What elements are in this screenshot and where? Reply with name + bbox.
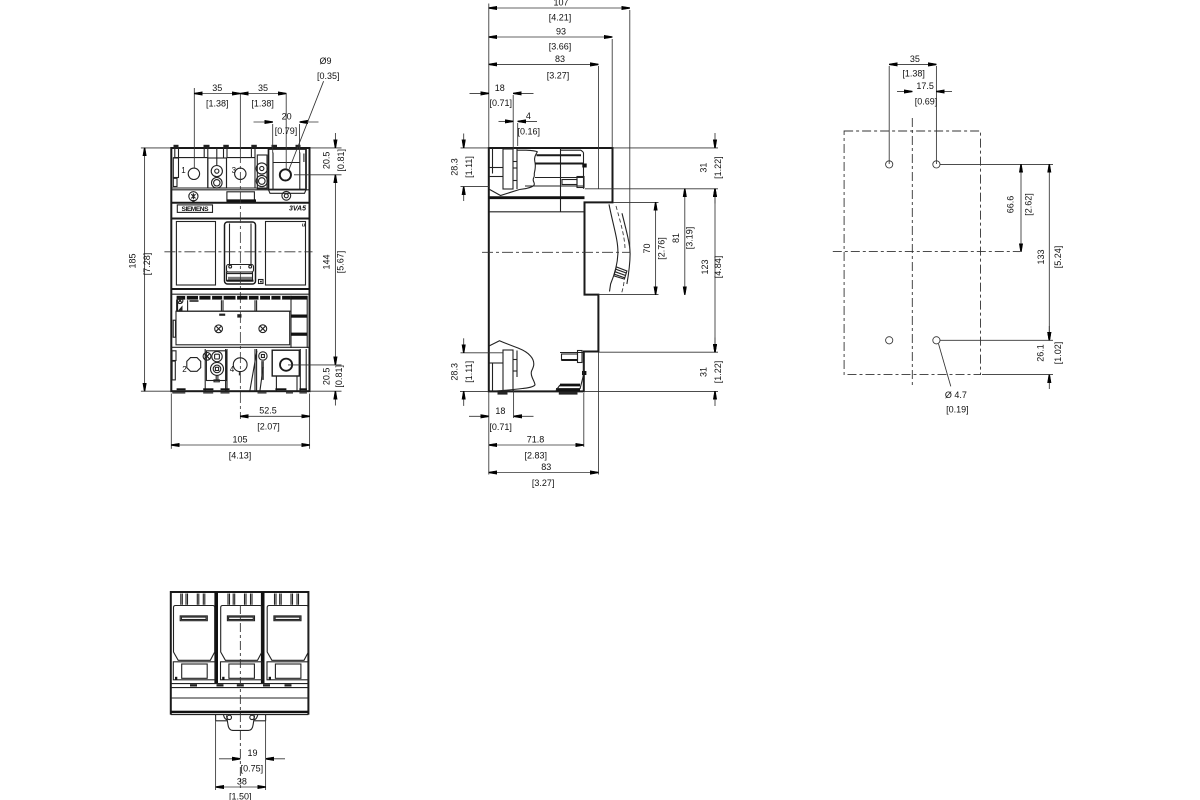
svg-text:18: 18	[495, 83, 505, 93]
svg-text:38: 38	[237, 776, 247, 786]
svg-text:81: 81	[671, 233, 681, 243]
dimension 38	[216, 715, 266, 800]
dimension 18 top	[470, 83, 534, 150]
dimension 35 pole spacing right	[240, 83, 286, 169]
svg-text:28.3: 28.3	[450, 363, 460, 381]
dimension 20.5 top right	[294, 133, 346, 175]
dimension 81	[671, 189, 695, 295]
svg-text:26.1: 26.1	[1036, 344, 1046, 362]
svg-text:[1.38]: [1.38]	[206, 99, 229, 109]
svg-text:[0.75]: [0.75]	[241, 763, 264, 773]
mounting hole bottom right	[933, 337, 940, 344]
dimension 185 left	[128, 148, 171, 391]
dimension 93	[489, 26, 612, 148]
pole 3 housing	[267, 594, 308, 680]
panel outline dash dot	[844, 131, 980, 375]
handle grip cross section	[614, 267, 627, 279]
svg-text:[1.22]: [1.22]	[713, 361, 723, 384]
right side wall lines	[304, 149, 306, 190]
dimension 26.1	[982, 326, 1063, 389]
top terminal clamp bracket	[503, 149, 517, 189]
left clip detail	[177, 298, 183, 311]
terminal circle 4	[230, 358, 247, 376]
DRILL PLAN GROUP	[833, 54, 1063, 414]
svg-text:17.5: 17.5	[916, 81, 934, 91]
svg-text:83: 83	[555, 54, 565, 64]
svg-text:185: 185	[128, 253, 138, 268]
dimension 35 hole spacing	[889, 54, 936, 164]
svg-text:28.3: 28.3	[450, 158, 460, 176]
svg-text:[0.81]: [0.81]	[336, 149, 346, 172]
svg-text:133: 133	[1036, 249, 1046, 264]
diagonal cover edges	[250, 351, 263, 391]
svg-text:[4.21]: [4.21]	[549, 13, 572, 23]
dimension 123	[700, 189, 723, 352]
svg-text:1: 1	[181, 166, 186, 175]
pole divider bars	[214, 592, 264, 684]
screw right under terminals	[282, 191, 291, 200]
svg-text:[0.35]: [0.35]	[317, 71, 340, 81]
base small tabs	[190, 684, 292, 686]
svg-text:20.5: 20.5	[321, 368, 331, 386]
top pocket walls	[208, 158, 255, 188]
dimension 17.5	[897, 81, 952, 106]
svg-text:[0.71]: [0.71]	[490, 98, 513, 108]
svg-text:35: 35	[212, 83, 222, 93]
vertical center line front view	[239, 94, 241, 420]
din rail foot	[216, 715, 266, 721]
svg-text:20: 20	[282, 112, 292, 122]
side view body outline	[489, 148, 613, 391]
svg-text:2: 2	[182, 365, 187, 374]
nameplate window	[227, 192, 256, 202]
svg-text:[2.07]: [2.07]	[257, 422, 280, 432]
dimension 19	[219, 748, 285, 773]
mounting hole top left	[886, 161, 893, 168]
dimension 20.5 bottom right	[288, 365, 344, 406]
toggle handle grip	[227, 265, 254, 281]
base plate lines	[171, 684, 309, 715]
din rail clip cup	[224, 715, 258, 730]
accessory box	[176, 311, 290, 345]
svg-text:[7.28]: [7.28]	[142, 253, 152, 276]
band line	[171, 202, 309, 204]
vent hatch band	[177, 296, 291, 300]
svg-text:66.6: 66.6	[1005, 196, 1015, 214]
bottom terminal left rib	[489, 363, 503, 391]
svg-text:35: 35	[258, 83, 268, 93]
u marking	[302, 223, 306, 229]
svg-text:Ø 4.7: Ø 4.7	[945, 390, 967, 400]
dimension 52.5 bottom	[240, 394, 309, 449]
svg-text:4: 4	[230, 365, 235, 374]
svg-text:70: 70	[642, 243, 652, 253]
bottom pocket walls	[205, 349, 256, 391]
thick band under top terminal	[489, 198, 585, 212]
dimension 70 handle window	[599, 202, 667, 294]
svg-text:123: 123	[700, 259, 710, 274]
bottom view outline	[171, 592, 309, 715]
svg-text:[1.22]: [1.22]	[713, 156, 723, 179]
svg-text:52.5: 52.5	[259, 406, 277, 416]
bottom view center line	[239, 605, 241, 788]
mid right panel	[266, 222, 306, 286]
terminal circle 1	[181, 166, 199, 180]
hole extension line top	[940, 163, 1053, 165]
mounting hole top right	[933, 161, 940, 168]
dimension diameter 9 with leader	[288, 56, 339, 172]
svg-text:[1.38]: [1.38]	[251, 99, 274, 109]
terminal screw block A	[208, 148, 227, 189]
svg-text:[5.24]: [5.24]	[1053, 246, 1063, 269]
right accessory column	[291, 296, 307, 348]
svg-text:[1.38]: [1.38]	[902, 69, 925, 79]
bottom screw block B	[259, 352, 267, 380]
svg-text:[0.79]: [0.79]	[275, 126, 298, 136]
svg-text:31: 31	[699, 163, 709, 173]
pole 1 housing	[173, 594, 215, 680]
bottom screw block A	[206, 351, 226, 382]
svg-text:[2.76]: [2.76]	[656, 237, 666, 260]
left side tab	[173, 320, 175, 337]
svg-text:SIEMENS: SIEMENS	[182, 206, 210, 213]
svg-text:[0.71]: [0.71]	[489, 422, 512, 432]
svg-text:[2.62]: [2.62]	[1023, 193, 1033, 216]
svg-text:83: 83	[541, 462, 551, 472]
bottom terminal clamp foot	[556, 385, 580, 391]
svg-text:[2.83]: [2.83]	[525, 451, 548, 461]
svg-text:[0.81]: [0.81]	[334, 365, 344, 388]
terminal screw block B	[256, 155, 267, 189]
strip under hatch band	[177, 300, 291, 312]
top cable lug	[517, 150, 537, 189]
BOTTOM VIEW GROUP	[171, 592, 309, 800]
accessory screw left	[215, 325, 223, 333]
top mounting tabs	[174, 145, 301, 148]
svg-text:[1.50]: [1.50]	[229, 791, 252, 800]
svg-text:71.8: 71.8	[527, 434, 545, 444]
breaker body outline front view	[171, 148, 309, 391]
hole extension line bottom	[940, 339, 1053, 341]
svg-text:[1.11]: [1.11]	[464, 361, 474, 383]
dimension 20 terminal strap	[254, 112, 319, 153]
external terminal box bottom right	[272, 350, 299, 391]
dimension 4	[499, 111, 541, 146]
mounting hole bottom left	[886, 337, 893, 344]
svg-text:[0.69]: [0.69]	[915, 96, 938, 106]
dimension 71.8	[489, 393, 584, 461]
dimension 31 bottom right	[584, 338, 723, 407]
accessory screw right	[259, 325, 267, 333]
svg-text:93: 93	[556, 26, 566, 36]
bottom left wall strips	[172, 351, 176, 380]
svg-text:31: 31	[699, 367, 709, 377]
bottom mounting tabs side	[498, 392, 578, 395]
bottom terminal clamp bracket	[503, 350, 517, 391]
svg-text:[0.16]: [0.16]	[518, 126, 541, 136]
dimension 83 bottom	[489, 352, 599, 488]
terminal cover seam	[560, 148, 562, 212]
bottom right wall lines	[300, 349, 306, 391]
svg-text:35: 35	[910, 54, 920, 64]
top lug strap lines	[525, 150, 584, 186]
dimension diameter 4.7 with leader	[939, 344, 969, 415]
handle window arcs	[609, 204, 630, 291]
svg-text:3: 3	[232, 166, 237, 175]
double line above accessory area	[171, 289, 309, 294]
svg-text:107: 107	[553, 0, 568, 8]
FRONT VIEW GROUP	[128, 56, 346, 461]
dimension 107 depth	[489, 0, 630, 253]
top terminal left rib	[489, 149, 503, 177]
bottom mounting tabs	[172, 392, 307, 394]
dimension 31 top right	[585, 133, 723, 204]
svg-text:18: 18	[495, 406, 505, 416]
dimension 28.3 top left	[450, 134, 489, 202]
svg-text:[4.84]: [4.84]	[713, 256, 723, 279]
dimension 18 bottom	[469, 390, 534, 432]
svg-text:105: 105	[232, 434, 247, 444]
small square right of toggle	[259, 280, 264, 284]
side view center line	[482, 251, 631, 253]
svg-text:[1.02]: [1.02]	[1053, 342, 1063, 365]
bottom terminal row top edge	[171, 346, 309, 348]
svg-text:[3.66]: [3.66]	[549, 42, 572, 52]
drill vertical center line	[911, 118, 913, 385]
external terminal box top right	[269, 149, 307, 193]
3VA5 marking	[289, 205, 306, 212]
drill horizontal center line	[833, 251, 1020, 253]
svg-text:3VA5: 3VA5	[289, 205, 306, 212]
pocket floor bars	[177, 388, 307, 390]
handle travel dashed arc	[616, 206, 625, 294]
terminal circle 3	[232, 166, 246, 180]
svg-text:[5.67]: [5.67]	[336, 251, 346, 274]
pocket wall top stubs	[175, 148, 255, 158]
svg-text:[3.19]: [3.19]	[685, 227, 695, 250]
bottom small screw left	[203, 352, 211, 360]
mid left panel	[176, 222, 215, 286]
v groove under bracket	[489, 189, 520, 196]
horizontal center line front view	[164, 251, 312, 253]
screw left under terminals	[189, 192, 198, 203]
dimension 133	[1036, 164, 1063, 340]
line under logo band	[171, 218, 309, 220]
bottom strap lines	[560, 351, 586, 390]
svg-text:[3.27]: [3.27]	[547, 70, 570, 80]
dimension 83 top	[489, 54, 599, 189]
pole 2 housing	[221, 594, 263, 680]
line under terminals	[171, 188, 309, 190]
top terminal strap end	[562, 153, 587, 189]
terminal circle 2 octagon	[182, 358, 201, 375]
pocket1 left strips	[173, 158, 178, 187]
svg-text:[1.11]: [1.11]	[464, 156, 474, 178]
dimension 105 bottom	[171, 394, 309, 461]
bottom cable lug side	[489, 341, 535, 391]
svg-text:20.5: 20.5	[322, 152, 332, 170]
dimension 28.3 bottom left	[450, 338, 503, 406]
SIEMENS logo plate	[177, 205, 212, 213]
top pocket top edges	[173, 157, 255, 159]
svg-text:[4.13]: [4.13]	[229, 451, 252, 461]
toggle recess	[225, 222, 256, 284]
svg-text:Ø9: Ø9	[319, 56, 331, 66]
dimension 35 pole spacing left	[194, 83, 240, 168]
dimension 66.6	[1005, 164, 1033, 251]
svg-text:[0.19]: [0.19]	[946, 404, 969, 414]
dimension 144 right	[322, 175, 346, 365]
SIDE VIEW GROUP	[450, 0, 724, 488]
svg-text:4: 4	[526, 111, 531, 121]
svg-text:19: 19	[247, 748, 257, 758]
svg-text:144: 144	[322, 254, 332, 269]
svg-text:[3.27]: [3.27]	[532, 478, 555, 488]
